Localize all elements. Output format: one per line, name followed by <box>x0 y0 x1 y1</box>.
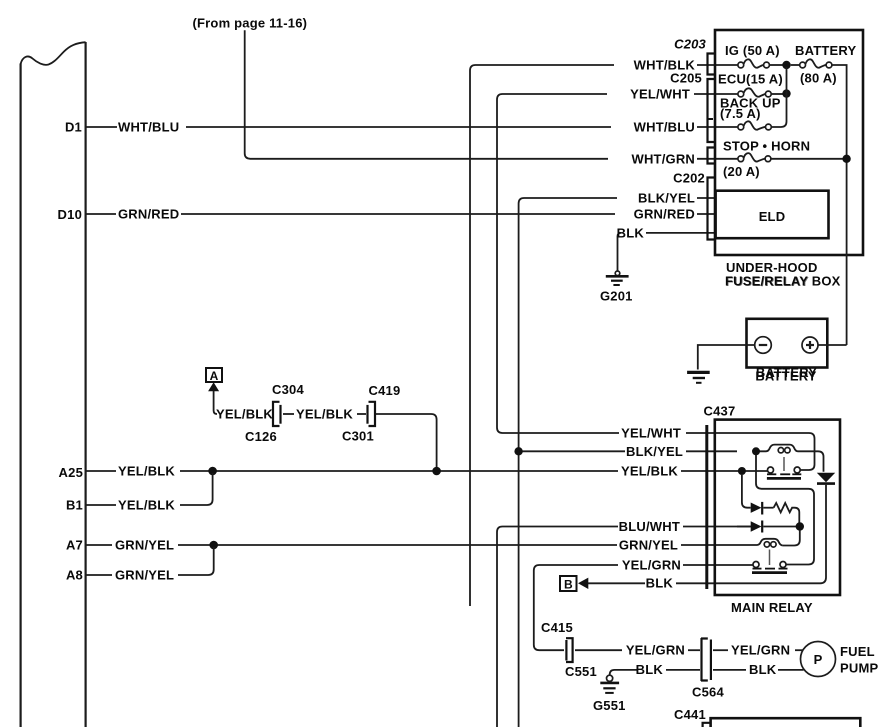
connector C205 bracket at fuse box <box>670 71 714 143</box>
wire GRN/YEL A7 to main relay <box>86 537 757 552</box>
svg-text:C205: C205 <box>670 71 702 86</box>
label UNDER-HOOD FUSE/RELAY BOX <box>725 260 841 289</box>
connector C203 bracket at fuse box <box>674 37 714 75</box>
junction dot YEL/BLK <box>738 467 746 475</box>
ECM boundary torn-edge squiggle <box>21 42 86 65</box>
pin A7 <box>66 538 83 553</box>
svg-text:YEL/GRN: YEL/GRN <box>731 643 790 658</box>
svg-text:ECU(15 A): ECU(15 A) <box>718 72 783 87</box>
svg-text:YEL/GRN: YEL/GRN <box>622 557 681 572</box>
relay suppressor diode (cathode down) <box>737 473 835 584</box>
ECM connector boundary right line <box>84 42 86 727</box>
ground G551 <box>593 675 626 713</box>
svg-text:BLK: BLK <box>646 576 674 591</box>
wire battery negative to ground <box>698 345 755 370</box>
svg-text:YEL/GRN: YEL/GRN <box>626 643 685 658</box>
svg-text:YEL/WHT: YEL/WHT <box>621 426 681 441</box>
svg-text:MAIN RELAY: MAIN RELAY <box>731 600 813 615</box>
svg-text:A7: A7 <box>66 538 83 553</box>
svg-text:BATTERY: BATTERY <box>795 43 856 58</box>
svg-text:B: B <box>564 577 573 591</box>
svg-text:GRN/YEL: GRN/YEL <box>619 537 678 552</box>
ground at battery <box>687 372 710 382</box>
svg-text:GRN/RED: GRN/RED <box>118 207 179 222</box>
fuel pump <box>801 642 879 677</box>
wire WHT/BLK to fuse box, vertical branch down <box>470 58 738 607</box>
label BATTERY (double printed) <box>755 365 817 384</box>
connector C202 bracket at fuse box <box>673 171 714 240</box>
svg-text:(80 A): (80 A) <box>800 71 837 86</box>
svg-text:C415: C415 <box>541 620 573 635</box>
svg-text:(20 A): (20 A) <box>723 164 760 179</box>
svg-text:A25: A25 <box>59 465 83 480</box>
svg-text:BLK/YEL: BLK/YEL <box>626 444 683 459</box>
wire YEL/BLK from node A through C304 and C419 to A25 line <box>214 391 437 471</box>
svg-text:FUSE/RELAY: FUSE/RELAY <box>726 274 809 289</box>
svg-text:C437: C437 <box>704 404 736 419</box>
svg-text:BATTERY: BATTERY <box>756 365 817 380</box>
svg-text:BLU/WHT: BLU/WHT <box>619 519 680 534</box>
svg-text:IG (50 A): IG (50 A) <box>725 43 780 58</box>
junction dot A25/C419 <box>432 467 441 476</box>
wire BLK from ELD to ground G201 <box>617 225 714 271</box>
svg-text:WHT/BLU: WHT/BLU <box>634 119 695 134</box>
relay internal: dot down to coil 2 <box>782 531 799 546</box>
svg-text:C126: C126 <box>245 429 277 444</box>
relay coil 2 <box>757 539 782 547</box>
pin B1 <box>66 498 83 513</box>
svg-text:WHT/BLU: WHT/BLU <box>118 119 179 134</box>
relay contact 1 circles and bars <box>767 457 801 478</box>
svg-text:A: A <box>210 369 219 383</box>
svg-text:C564: C564 <box>692 685 724 700</box>
wire BLK/YEL at main relay <box>519 444 737 459</box>
relay internal: diode 1 and resistor branch <box>742 475 799 523</box>
connector C304/C126 inline <box>245 382 304 444</box>
ground G201 <box>600 271 633 304</box>
relay internal: YEL/WHT to contact 1 <box>737 433 815 470</box>
wire BLK fuel pump to ground G551 <box>610 662 804 677</box>
svg-text:B1: B1 <box>66 498 83 513</box>
svg-text:C419: C419 <box>369 383 401 398</box>
svg-text:GRN/YEL: GRN/YEL <box>115 537 174 552</box>
svg-text:GRN/YEL: GRN/YEL <box>115 567 174 582</box>
fuse ECU (15 A) <box>718 72 783 97</box>
svg-text:D1: D1 <box>65 119 82 134</box>
main relay box <box>715 420 840 595</box>
relay coil 1 <box>756 445 824 472</box>
wire ECU dot down to BACK UP fuse <box>771 67 786 127</box>
relay internal: BLU/WHT diode 2 <box>737 521 797 533</box>
svg-text:C301: C301 <box>342 429 374 444</box>
pin D10 <box>58 207 82 222</box>
relay internal: BLK/YEL branch to contact 2 <box>756 455 814 565</box>
fuse BATTERY (80 A) <box>791 43 857 345</box>
svg-text:(From page 11-16): (From page 11-16) <box>193 16 308 31</box>
wire YEL/WHT from ECU fuse down to main relay <box>497 87 738 441</box>
svg-text:YEL/BLK: YEL/BLK <box>216 406 273 421</box>
fuse BACK UP (7.5 A) <box>720 96 781 130</box>
connector C437 bar <box>705 425 708 589</box>
svg-text:BLK: BLK <box>636 662 664 677</box>
pin D1 <box>65 119 82 134</box>
connector C415/C551 inline <box>541 620 597 679</box>
junction dot A25/B1 <box>208 467 217 476</box>
MAIN RELAY C437 <box>704 404 813 616</box>
svg-text:YEL/BLK: YEL/BLK <box>296 406 353 421</box>
node A box with arrow <box>206 368 222 391</box>
wire YEL/GRN main relay to fuel pump branch <box>534 557 753 650</box>
svg-text:GRN/RED: GRN/RED <box>634 207 695 222</box>
fuse STOP-HORN (20 A) <box>723 139 847 180</box>
node B box with arrow <box>560 576 588 591</box>
ELD box <box>716 191 829 239</box>
junction dot coil1 / BLK-YEL <box>752 447 760 455</box>
wire YEL/BLK A25 to main relay <box>86 463 768 478</box>
svg-text:A8: A8 <box>66 568 83 583</box>
bottom box C441 <box>674 707 860 727</box>
wire battery positive to fuse box <box>818 344 847 346</box>
wire GRN/RED from D10 to ELD <box>86 207 714 222</box>
svg-text:P: P <box>814 652 823 667</box>
svg-text:C202: C202 <box>673 171 705 186</box>
wire YEL/GRN to fuel pump <box>575 643 803 658</box>
junction dot ECU fuse <box>782 89 790 97</box>
ECM connector boundary left line <box>20 64 22 727</box>
wire from (From page 11-16) down to WHT/GRN <box>245 30 738 166</box>
svg-text:STOP • HORN: STOP • HORN <box>723 139 810 154</box>
svg-text:ELD: ELD <box>759 209 786 224</box>
junction dot A7/A8 <box>209 541 218 550</box>
svg-text:G201: G201 <box>600 289 633 304</box>
svg-text:WHT/GRN: WHT/GRN <box>632 151 696 166</box>
relay contact 2 circles and bars <box>752 550 788 573</box>
svg-text:C203: C203 <box>674 37 706 52</box>
svg-text:C441: C441 <box>674 707 706 722</box>
wire BLK main relay to node B <box>588 576 737 591</box>
svg-text:C304: C304 <box>272 382 304 397</box>
connector C564 <box>692 638 724 700</box>
svg-text:YEL/BLK: YEL/BLK <box>621 463 678 478</box>
svg-text:FUEL: FUEL <box>840 644 875 659</box>
junction dot IG/BATTERY fuses <box>782 61 790 69</box>
svg-text:C551: C551 <box>565 664 597 679</box>
junction dot BLK/YEL <box>514 447 522 455</box>
wire GRN/YEL A8 joins A7 <box>86 547 214 582</box>
svg-text:G551: G551 <box>593 698 626 713</box>
connector bracket WHT/GRN at fuse box <box>708 148 715 164</box>
svg-text:(7.5 A): (7.5 A) <box>720 106 761 121</box>
svg-text:YEL/BLK: YEL/BLK <box>118 497 175 512</box>
wire BLK/YEL from ELD down to main relay junction <box>519 191 714 727</box>
svg-text:BLK/YEL: BLK/YEL <box>638 191 695 206</box>
UNDER-HOOD FUSE/RELAY BOX outline <box>715 30 863 255</box>
svg-text:YEL/BLK: YEL/BLK <box>118 463 175 478</box>
svg-text:BLK: BLK <box>749 662 777 677</box>
battery negative terminal <box>755 337 772 354</box>
junction dot STOP-HORN to battery feed <box>842 155 850 163</box>
battery box <box>747 319 828 368</box>
connector C419/C301 inline <box>342 383 400 444</box>
battery positive terminal <box>802 337 818 353</box>
svg-text:YEL/WHT: YEL/WHT <box>630 87 690 102</box>
fuse IG (50 A) <box>725 43 783 68</box>
note (From page 11-16) <box>193 16 308 31</box>
pin A25 <box>59 465 83 480</box>
svg-text:BLK: BLK <box>617 225 645 240</box>
wire BLU/WHT from bottom to main relay <box>497 519 751 727</box>
wire YEL/BLK B1 joins A25 <box>86 473 213 512</box>
svg-text:PUMP: PUMP <box>840 661 878 676</box>
junction dot diode2/resistor <box>796 522 804 530</box>
pin A8 <box>66 568 83 583</box>
wire WHT/BLU from D1 to fuse box <box>86 119 738 134</box>
svg-text:D10: D10 <box>58 207 82 222</box>
